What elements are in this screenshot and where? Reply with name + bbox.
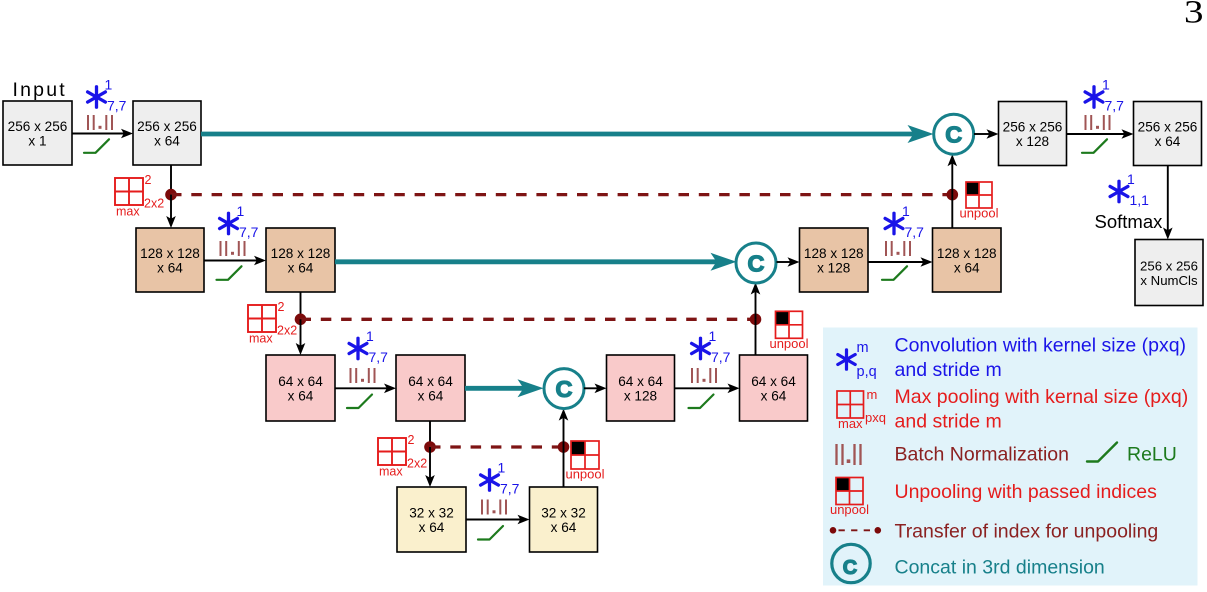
box bottleneck2 32x32x64	[530, 487, 598, 552]
teal concat arrow level1	[201, 125, 934, 143]
box dec3 64x64x128	[607, 355, 675, 421]
arrow dec1 conv	[1067, 129, 1134, 139]
svg-text:p,q: p,q	[857, 364, 877, 380]
svg-text:Concat in 3rd dimension: Concat in 3rd dimension	[895, 557, 1105, 579]
arrow up into concat C3	[559, 409, 569, 447]
svg-text:128 x 128: 128 x 128	[271, 246, 331, 261]
arrow down to enc3	[296, 319, 306, 355]
conv symbol 7,7 level3 right	[692, 328, 731, 365]
conv symbol 7,7 level1 left	[88, 77, 127, 114]
svg-text:2: 2	[145, 173, 152, 187]
batch norm symbol level2 left	[221, 241, 245, 256]
svg-text:2x2: 2x2	[407, 457, 427, 471]
svg-text:Input: Input	[13, 79, 67, 101]
box enc2 128x128x64	[136, 228, 204, 292]
concat node C2	[736, 243, 776, 283]
arrow up into concat C1	[948, 154, 958, 194]
arrow C3 to dec3	[584, 384, 607, 394]
legend maxpool text	[895, 386, 1189, 433]
index dot level3 left	[424, 441, 436, 453]
svg-text:128 x 128: 128 x 128	[804, 246, 864, 261]
legend conv symbol	[838, 340, 877, 380]
svg-text:x 1: x 1	[28, 133, 46, 148]
svg-text:max: max	[379, 465, 403, 479]
box enc2b 128x128x64	[266, 228, 335, 292]
index dot level1 left	[165, 189, 177, 201]
svg-text:256 x 256: 256 x 256	[1140, 258, 1198, 273]
svg-text:1: 1	[1127, 171, 1135, 187]
svg-text:2x2: 2x2	[277, 324, 297, 338]
svg-text:256 x 256: 256 x 256	[1138, 119, 1198, 134]
index transfer dash level3	[430, 445, 564, 448]
legend unpool symbol	[830, 478, 869, 518]
maxpool symbol 2x2 level1	[115, 173, 164, 219]
box dec1 256x256x128	[999, 102, 1067, 166]
svg-text:x 64: x 64	[154, 133, 180, 148]
box input 256x256x1	[3, 101, 72, 165]
box dec1b 256x256x64	[1134, 102, 1202, 166]
box enc3b 64x64x64	[396, 355, 465, 421]
svg-text:Transfer of index for unpoolin: Transfer of index for unpooling	[895, 521, 1159, 543]
legend conv text	[895, 335, 1187, 382]
index dot level2 left	[295, 314, 307, 326]
svg-text:64 x 64: 64 x 64	[278, 374, 323, 389]
arrow bottleneck conv	[466, 515, 530, 525]
conv symbol 7,7 level2 right	[885, 203, 924, 240]
box dec3b 64x64x64	[740, 355, 808, 421]
box bottleneck 32x32x64	[397, 487, 466, 552]
legend concat text	[895, 557, 1105, 579]
arrow to output box	[1163, 166, 1173, 240]
svg-text:7,7: 7,7	[1105, 98, 1125, 114]
legend batch norm text	[895, 444, 1070, 466]
svg-text:unpool: unpool	[959, 206, 998, 221]
svg-text:unpool: unpool	[769, 336, 808, 351]
arrow enc3 to enc3b	[335, 384, 396, 394]
svg-text:x 64: x 64	[761, 388, 787, 403]
svg-text:Batch Normalization: Batch Normalization	[895, 444, 1070, 466]
svg-text:x 128: x 128	[817, 260, 850, 275]
arrow down to bottleneck	[425, 447, 435, 487]
arrow C1 to dec1	[974, 129, 999, 139]
svg-text:C: C	[556, 376, 573, 402]
svg-text:64 x 64: 64 x 64	[618, 374, 663, 389]
batch norm symbol level1 left	[88, 115, 112, 130]
svg-text:64 x 64: 64 x 64	[751, 374, 796, 389]
svg-text:m: m	[857, 340, 869, 356]
svg-text:256 x 256: 256 x 256	[8, 119, 68, 134]
svg-text:32 x 32: 32 x 32	[409, 505, 454, 520]
arrow up into concat C2	[751, 283, 761, 320]
box output 256x256xNumCls	[1135, 240, 1203, 306]
arrow enc2 to enc2b	[204, 256, 266, 266]
relu symbol level2 left	[217, 266, 242, 280]
svg-text:1: 1	[498, 460, 506, 476]
svg-text:Softmax: Softmax	[1095, 211, 1164, 232]
svg-text:pxq: pxq	[865, 410, 886, 425]
svg-text:x 64: x 64	[551, 520, 577, 535]
relu symbol level3 left	[347, 395, 372, 409]
teal concat arrow level3	[465, 379, 544, 397]
svg-text:x 128: x 128	[1016, 134, 1049, 149]
wire unpool up level3	[755, 319, 757, 355]
box dec2 128x128x128	[800, 228, 869, 292]
relu symbol level4	[478, 526, 503, 540]
svg-text:7,7: 7,7	[369, 349, 389, 365]
legend transfer symbol	[830, 527, 881, 534]
batch norm symbol level3 left	[351, 368, 375, 383]
wire unpool up level2	[951, 195, 953, 228]
unpool symbol level3	[769, 311, 808, 351]
arrow dec2 conv	[868, 257, 933, 267]
svg-text:x 64: x 64	[418, 388, 444, 403]
svg-text:Unpooling with passed indices: Unpooling with passed indices	[895, 481, 1158, 503]
legend relu symbol	[1087, 443, 1117, 462]
relu symbol level1 right	[1082, 139, 1107, 153]
conv symbol 7,7 level4	[481, 460, 520, 497]
svg-text:x NumCls: x NumCls	[1140, 273, 1198, 288]
arrow C2 to dec2	[777, 257, 800, 267]
svg-text:max: max	[838, 416, 863, 431]
svg-text:1,1: 1,1	[1130, 192, 1150, 208]
box enc3 64x64x64	[266, 355, 335, 421]
svg-text:256 x 256: 256 x 256	[1003, 119, 1063, 134]
batch norm symbol level4	[482, 500, 506, 515]
svg-text:32 x 32: 32 x 32	[541, 505, 586, 520]
maxpool symbol 2x2 level2	[248, 300, 297, 346]
conv symbol 7,7 level3 left	[349, 328, 388, 365]
conv symbol 7,7 level1 right	[1085, 77, 1124, 114]
svg-text:7,7: 7,7	[711, 349, 731, 365]
svg-text:C: C	[945, 122, 962, 148]
index dot level3 right	[558, 441, 570, 453]
svg-text:and stride m: and stride m	[895, 359, 1002, 381]
svg-text:x 64: x 64	[419, 520, 445, 535]
svg-text:1: 1	[709, 328, 717, 344]
svg-text:Max pooling with kernal size (: Max pooling with kernal size (pxq)	[895, 386, 1189, 408]
svg-text:256 x 256: 256 x 256	[137, 119, 197, 134]
teal concat arrow level2	[335, 253, 737, 271]
svg-text:64 x 64: 64 x 64	[408, 374, 453, 389]
maxpool symbol 2x2 level3	[378, 433, 427, 479]
legend batch norm symbol	[837, 444, 861, 465]
legend background	[823, 328, 1198, 586]
svg-text:128 x 128: 128 x 128	[937, 246, 997, 261]
svg-text:1: 1	[902, 203, 910, 219]
wire enc1 down	[170, 165, 172, 191]
relu symbol level1 left	[84, 139, 109, 153]
index transfer dash level1	[171, 193, 952, 196]
svg-text:and stride m: and stride m	[895, 411, 1002, 433]
legend concat symbol	[832, 544, 870, 582]
svg-text:x 64: x 64	[157, 260, 183, 275]
arrow dec3 conv	[675, 384, 740, 394]
svg-text:Convolution with kernel size (: Convolution with kernel size (pxq)	[895, 335, 1187, 357]
svg-text:unpool: unpool	[830, 502, 869, 517]
svg-text:7,7: 7,7	[107, 98, 127, 114]
svg-text:1: 1	[1102, 77, 1110, 93]
legend unpool text	[895, 481, 1158, 503]
index dot level1 right	[947, 189, 959, 201]
svg-text:x 64: x 64	[288, 388, 314, 403]
svg-text:1: 1	[237, 203, 245, 219]
svg-text:unpool: unpool	[565, 467, 604, 482]
arrow down to enc2	[166, 195, 176, 228]
svg-text:x 128: x 128	[624, 388, 657, 403]
svg-text:C: C	[843, 557, 857, 579]
index transfer dash level2	[301, 318, 756, 321]
unpool symbol level4	[565, 441, 604, 482]
svg-text:x 64: x 64	[288, 260, 314, 275]
concat node C3	[544, 369, 584, 409]
svg-text:m: m	[867, 387, 878, 402]
svg-text:2: 2	[278, 300, 285, 314]
svg-text:x 64: x 64	[954, 260, 980, 275]
batch norm symbol level2 right	[886, 241, 910, 256]
relu symbol level2 right	[882, 266, 907, 280]
svg-text:1: 1	[366, 328, 374, 344]
svg-text:2: 2	[408, 433, 415, 447]
legend transfer text	[895, 521, 1159, 543]
svg-text:ReLU: ReLU	[1127, 444, 1177, 466]
legend relu text	[1127, 444, 1177, 466]
svg-text:3: 3	[1184, 0, 1204, 31]
conv symbol 7,7 level2 left	[220, 203, 259, 240]
index dot level2 right	[750, 314, 762, 326]
svg-text:x 64: x 64	[1155, 134, 1181, 149]
box enc1 256x256x64	[133, 101, 201, 165]
conv symbol 1,1 softmax	[1110, 171, 1149, 208]
svg-text:1: 1	[105, 77, 113, 93]
svg-text:7,7: 7,7	[500, 481, 520, 497]
unpool symbol level2	[959, 182, 998, 221]
label Input	[13, 79, 67, 101]
concat node C1	[934, 114, 974, 154]
svg-text:max: max	[116, 205, 140, 219]
svg-text:7,7: 7,7	[905, 224, 925, 240]
box dec2b 128x128x64	[933, 228, 1002, 292]
svg-text:2x2: 2x2	[144, 197, 164, 211]
svg-text:max: max	[249, 332, 273, 346]
arrow input to enc1	[72, 129, 133, 139]
svg-text:7,7: 7,7	[239, 224, 259, 240]
relu symbol level3 right	[689, 395, 714, 409]
label Softmax	[1095, 211, 1164, 232]
wire unpool up level4	[563, 447, 565, 487]
batch norm symbol level3 right	[692, 368, 716, 383]
batch norm symbol level1 right	[1086, 115, 1110, 130]
page number 3	[1184, 0, 1204, 31]
legend maxpool symbol	[837, 387, 886, 431]
wire enc3b down	[429, 421, 431, 444]
wire enc2b down	[300, 292, 302, 316]
svg-text:C: C	[748, 250, 765, 276]
svg-text:128 x 128: 128 x 128	[140, 246, 200, 261]
